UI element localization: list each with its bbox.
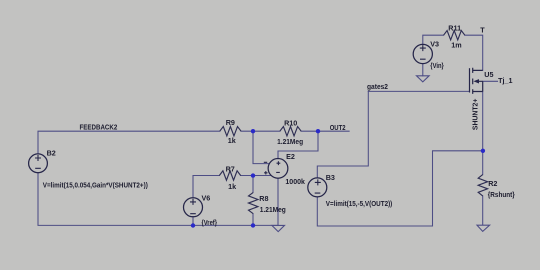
svg-text:1.21Meg: 1.21Meg (277, 139, 303, 146)
svg-text:R11: R11 (448, 24, 461, 33)
svg-text:B3: B3 (326, 173, 335, 182)
svg-text:V=limit(15,0.054,Gain*V(SHUNT2: V=limit(15,0.054,Gain*V(SHUNT2+)) (43, 182, 148, 189)
svg-text:T: T (480, 25, 485, 34)
svg-text:R7: R7 (226, 164, 235, 173)
svg-text:V=limit(15,-5,V(OUT2)): V=limit(15,-5,V(OUT2)) (326, 201, 393, 208)
svg-text:V6: V6 (202, 194, 211, 203)
svg-text:FEEDBACK2: FEEDBACK2 (80, 123, 118, 132)
svg-text:1000k: 1000k (285, 177, 305, 186)
svg-text:E2: E2 (286, 152, 295, 161)
svg-text:{Vin}: {Vin} (430, 61, 444, 70)
svg-text:Tj_1: Tj_1 (498, 76, 512, 85)
svg-text:{Rshunt}: {Rshunt} (488, 190, 515, 199)
svg-text:U5: U5 (484, 70, 493, 79)
svg-text:V3: V3 (430, 39, 439, 48)
svg-text:OUT2: OUT2 (330, 123, 346, 132)
svg-text:{Vref}: {Vref} (202, 218, 218, 227)
svg-text:1k: 1k (228, 136, 236, 145)
svg-text:SHUNT2+: SHUNT2+ (470, 99, 479, 131)
svg-text:gates2: gates2 (367, 82, 388, 91)
svg-text:1.21Meg: 1.21Meg (260, 207, 286, 214)
svg-text:R10: R10 (284, 119, 297, 128)
svg-text:R8: R8 (259, 194, 268, 203)
svg-text:B2: B2 (47, 149, 56, 158)
svg-text:R9: R9 (226, 118, 235, 127)
svg-text:1k: 1k (228, 182, 236, 191)
svg-text:R2: R2 (488, 179, 497, 188)
svg-text:1m: 1m (451, 40, 461, 49)
